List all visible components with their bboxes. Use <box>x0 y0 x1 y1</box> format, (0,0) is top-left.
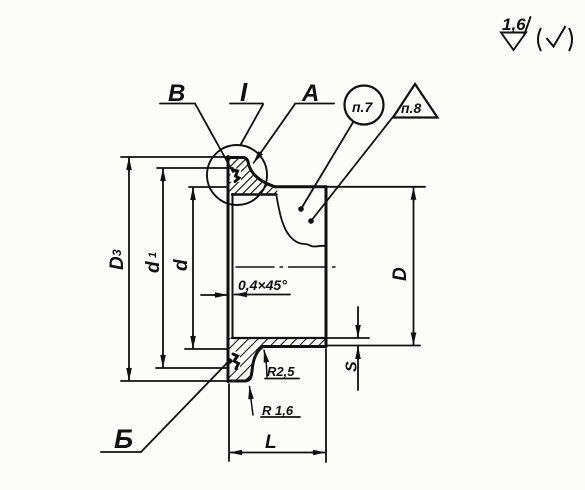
label Б underline and leader <box>101 451 141 453</box>
dimension L line <box>241 452 314 454</box>
groove notch Б (bottom lip) <box>230 352 241 369</box>
part outline: flange left face <box>227 157 230 382</box>
svg-text:3: 3 <box>110 249 124 256</box>
label B underline and leader <box>160 103 195 105</box>
svg-text:А: А <box>301 80 319 107</box>
dimension d1 line <box>162 179 164 357</box>
dimension D extension top <box>326 186 425 188</box>
bore chamfer edge line <box>232 194 234 338</box>
tube bottom outer line <box>263 345 326 348</box>
svg-text:В: В <box>168 80 185 107</box>
label I underline and leader <box>230 103 263 105</box>
rest-of-surfaces parens <box>538 26 572 51</box>
bore top line <box>232 193 277 195</box>
svg-text:0,4×45°: 0,4×45° <box>238 277 287 293</box>
dimension L extension left <box>228 384 230 461</box>
dimension d line <box>192 198 194 338</box>
svg-text:D: D <box>107 256 128 270</box>
dimension S extension <box>326 337 369 339</box>
top fillet from lip to tube <box>249 164 276 187</box>
svg-text:L: L <box>265 432 277 453</box>
svg-text:d: d <box>171 259 192 271</box>
hatched flange top lip section <box>228 157 278 195</box>
check mark in parens <box>547 26 566 47</box>
bore bottom line <box>232 337 326 339</box>
dimension d1 extension top <box>157 167 233 169</box>
svg-text:S: S <box>344 361 361 372</box>
dimension d extension top <box>189 186 226 188</box>
broken-out section break curve <box>277 196 327 247</box>
dimension L extension right <box>325 349 327 462</box>
п.8 reference triangle and leader <box>393 84 438 118</box>
dimension d1 extension bottom <box>156 367 226 369</box>
svg-text:1: 1 <box>147 252 159 258</box>
chamfer 0,4x45 dimension arrow right with tail underline <box>248 294 290 296</box>
svg-text:п.8: п.8 <box>401 100 421 116</box>
flange top edge <box>228 158 249 165</box>
dimension D extension bottom <box>326 345 420 347</box>
dimension D3 extension bottom <box>121 380 227 382</box>
R1,6 leader and underline <box>251 396 254 415</box>
п.7 reference circle and leader <box>345 86 384 125</box>
centerline <box>236 266 341 268</box>
hatched bottom tube wall and flange lip section <box>229 338 326 381</box>
dimension d extension bottom <box>185 348 227 350</box>
flange bottom edge <box>228 380 245 383</box>
svg-text:D: D <box>390 267 411 281</box>
tube right end face <box>325 187 328 347</box>
svg-text:Б: Б <box>114 424 133 454</box>
dimension S line <box>357 307 359 326</box>
bottom fillet R2,5 <box>252 347 264 375</box>
R2,5 leader and underline <box>266 358 267 378</box>
groove notch B (top lip) <box>231 169 242 183</box>
chamfer 0,4x45 dimension arrow left <box>201 294 215 296</box>
dimension D3 extension top <box>121 156 230 158</box>
tube top outer line <box>276 185 327 188</box>
svg-text:п.7: п.7 <box>352 99 373 115</box>
dimension D3 line <box>128 168 130 370</box>
surface finish symbol top right <box>501 33 526 51</box>
detail circle I <box>207 145 267 205</box>
svg-text:1,6: 1,6 <box>502 15 526 34</box>
bottom lip corner R1,6 <box>245 375 252 382</box>
svg-text:d: d <box>143 261 164 273</box>
svg-text:R2,5: R2,5 <box>267 364 295 379</box>
label A underline and leader <box>295 103 334 105</box>
svg-text:R 1,6: R 1,6 <box>262 403 294 418</box>
svg-text:I: I <box>240 77 248 107</box>
dimension D line <box>413 198 415 334</box>
